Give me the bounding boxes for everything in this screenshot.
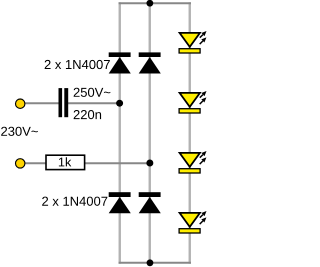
wire: left diode column vertical [119,2,121,264]
capacitor C1 plates [59,88,63,117]
wire: capacitor C1 to node A [67,102,121,104]
wire: terminal N to resistor R1 [24,162,46,164]
wire: bottom rail [119,262,191,264]
wire: LED column vertical [189,2,191,264]
resistor R1 body [46,155,85,169]
wire: resistor R1 to node B [85,162,151,164]
wire: middle diode column vertical [149,2,151,264]
LED LD2 [179,91,206,113]
resistor value label 1k [59,157,71,166]
junction: bottom rail / middle column [147,259,154,266]
LED LD3 [179,151,206,173]
node B junction: resistor to middle column [146,160,153,167]
label: 230V~ source [1,127,38,136]
diode D2 (top middle) [139,52,161,73]
capacitor value label 220n [74,110,101,119]
label: 2 x 1N4007 (bottom diode pair) [42,197,107,206]
junction: top rail / middle column [146,0,153,7]
node A junction: capacitor to left column [116,100,123,107]
terminal N (230V~ neutral) [16,159,25,168]
label: 2 x 1N4007 (top diode pair) [45,60,110,69]
diode D4 (bottom middle) [139,192,161,213]
LED LD1 [179,31,206,53]
terminal L (230V~ live) [16,99,25,108]
diode D1 (top left) [109,52,131,73]
diode D3 (bottom left) [109,192,131,213]
capacitor value label 250V~ [74,88,111,97]
wire: terminal L to capacitor C1 [24,102,59,104]
wire: top rail [119,2,191,4]
LED LD4 [179,211,206,233]
